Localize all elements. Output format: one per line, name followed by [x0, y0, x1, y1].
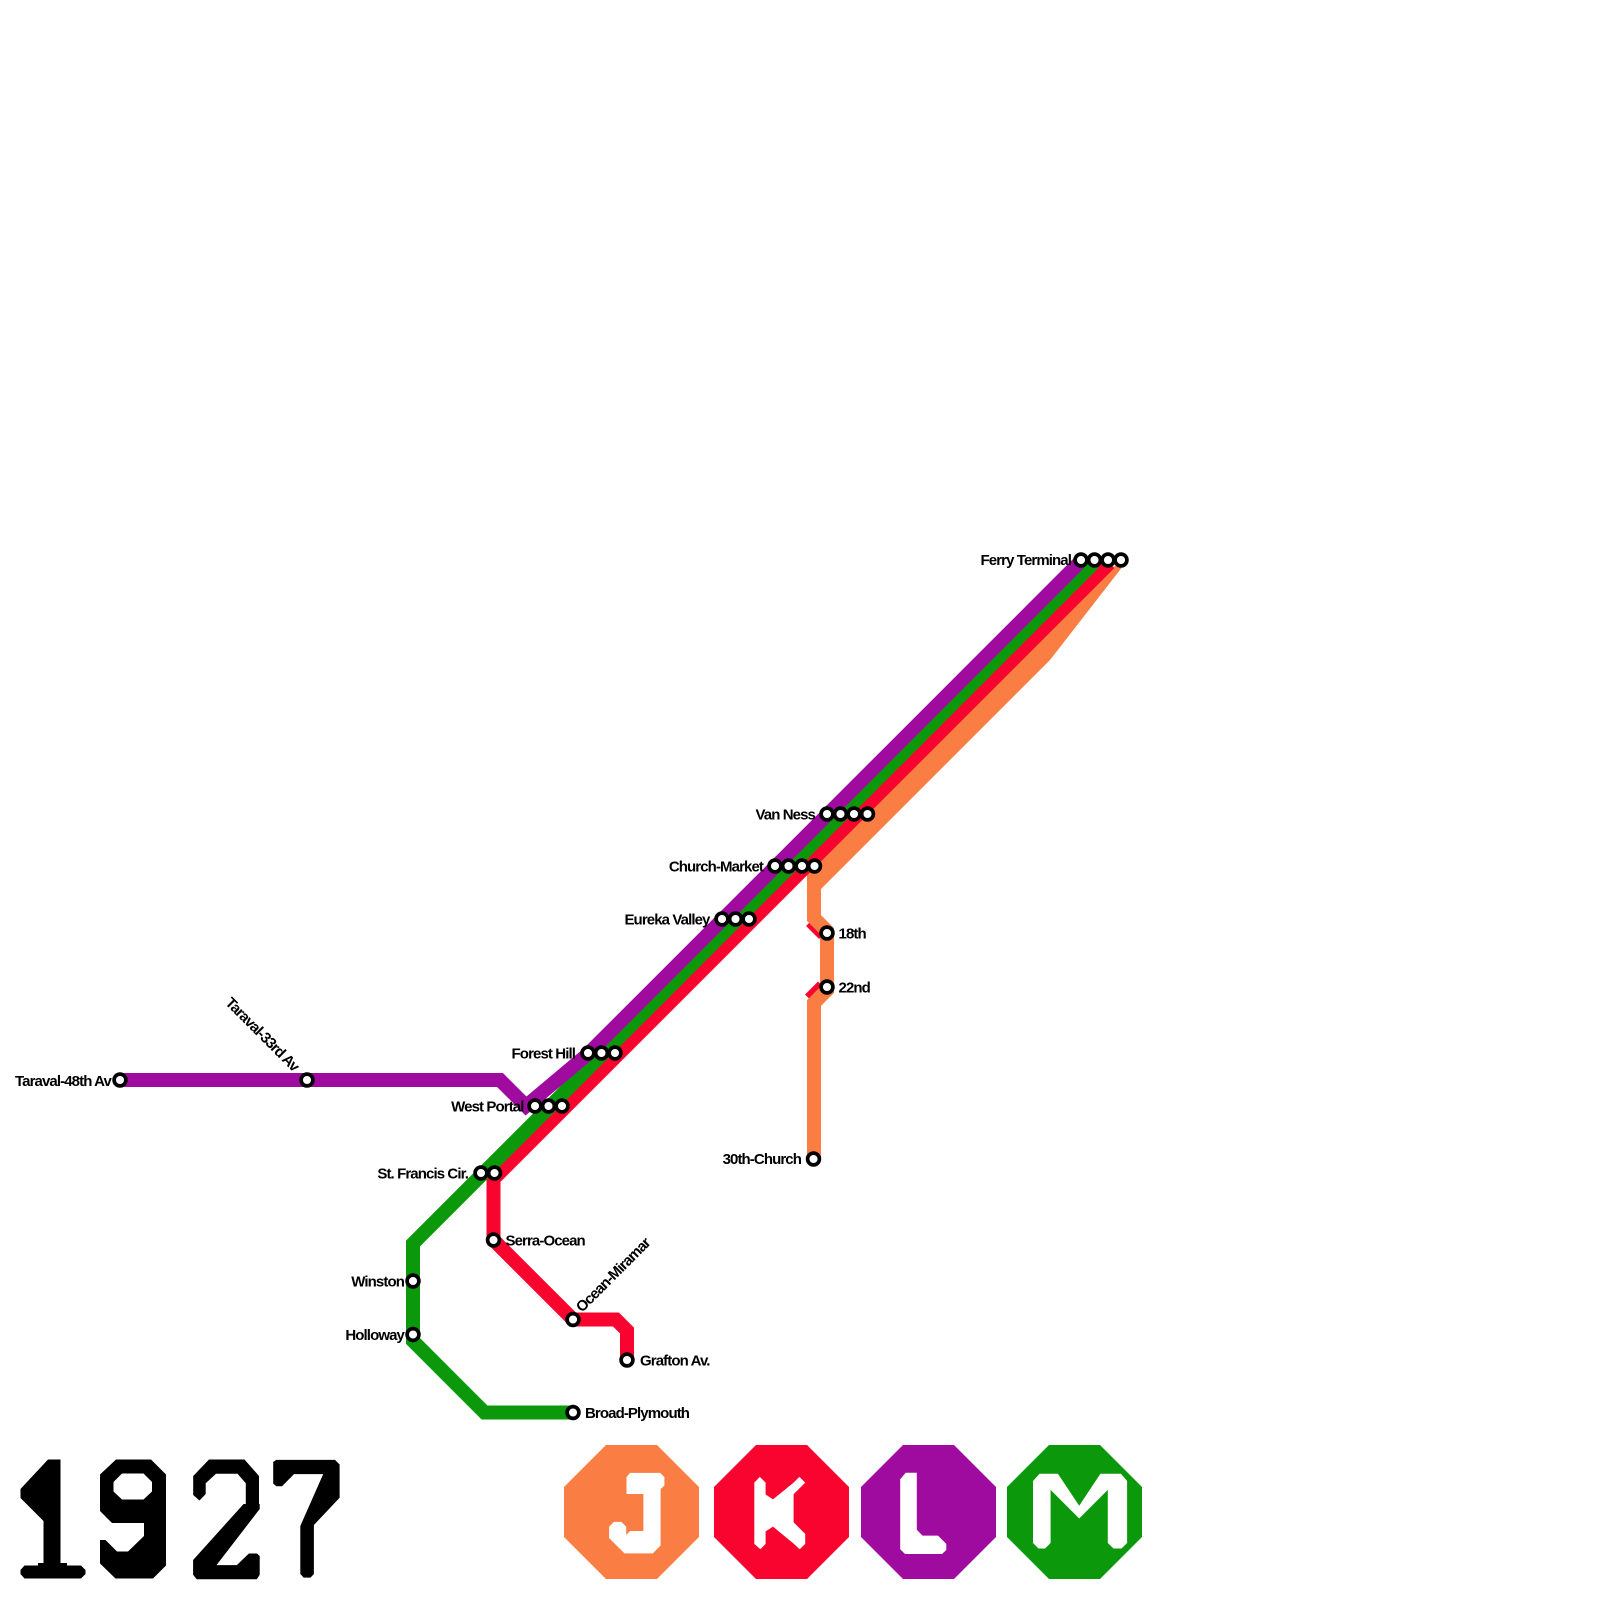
station Ferry Terminal — [1075, 554, 1087, 566]
year 1927 digit 1 — [21, 1460, 61, 1567]
svg-text:Church-Market: Church-Market — [669, 859, 764, 876]
line K (red) sliver under J branch jog at 18th — [811, 921, 824, 934]
station circles — [114, 554, 1127, 1418]
station Church-Market — [769, 860, 781, 872]
badge L letter — [900, 1473, 946, 1554]
badge J octagon (orange) — [564, 1445, 699, 1579]
year 1927 digit 2 — [193, 1460, 259, 1511]
station Eureka Valley — [716, 913, 728, 925]
badge M octagon (green) — [1007, 1445, 1142, 1579]
line J (orange) branch Church-Market to 30th-Church — [814, 864, 827, 1159]
badge J letter — [609, 1473, 664, 1554]
svg-text:Holloway: Holloway — [345, 1327, 405, 1344]
station Forest Hill — [582, 1047, 594, 1059]
badge K letter — [754, 1477, 805, 1549]
badge M letter — [1033, 1474, 1127, 1549]
station Winston — [407, 1275, 419, 1287]
station 18th — [821, 927, 833, 939]
station Ocean-Miramar — [567, 1314, 579, 1326]
station Grafton Av. — [621, 1354, 633, 1366]
svg-text:Serra-Ocean: Serra-Ocean — [506, 1233, 586, 1250]
svg-text:St. Francis Cir.: St. Francis Cir. — [377, 1166, 468, 1183]
year 1927 digit 7 — [273, 1460, 339, 1578]
station Holloway — [407, 1329, 419, 1341]
station Van Ness — [821, 808, 833, 820]
svg-text:22nd: 22nd — [839, 980, 871, 997]
station 22nd — [821, 981, 833, 993]
station Taraval-33rd Av — [301, 1074, 313, 1086]
line M (green) Ferry Terminal to Broad-Plymouth — [413, 563, 1094, 1413]
badge K octagon (red) — [714, 1445, 849, 1579]
line K (red) sliver under J branch jog at 22nd — [810, 987, 823, 1000]
line J (orange) wide diagonal Ferry Terminal to Church-Market junction — [807, 564, 1122, 889]
year 1927 digit 9 — [100, 1460, 166, 1579]
svg-text:Winston: Winston — [351, 1274, 404, 1291]
station Serra-Ocean — [488, 1234, 500, 1246]
svg-text:30th-Church: 30th-Church — [723, 1151, 802, 1168]
svg-text:Broad-Plymouth: Broad-Plymouth — [585, 1405, 690, 1422]
line L (purple) Ferry Terminal to Taraval-48th Av — [120, 563, 1079, 1106]
station West Portal — [529, 1100, 541, 1112]
station 30th-Church — [808, 1153, 820, 1165]
svg-text:Van Ness: Van Ness — [755, 807, 815, 824]
svg-text:Grafton Av.: Grafton Av. — [640, 1353, 710, 1370]
station Taraval-48th Av — [114, 1074, 126, 1086]
svg-text:Eureka Valley: Eureka Valley — [624, 912, 711, 929]
station Broad-Plymouth — [567, 1407, 579, 1419]
svg-text:West Portal: West Portal — [451, 1099, 524, 1116]
badge L octagon (purple) — [861, 1445, 996, 1579]
line K (red) Ferry Terminal to Grafton Av. — [494, 563, 1110, 1360]
station St. Francis Cir. — [475, 1167, 487, 1179]
svg-text:Forest Hill: Forest Hill — [512, 1046, 576, 1063]
svg-text:18th: 18th — [839, 926, 867, 943]
svg-text:Ferry Terminal: Ferry Terminal — [981, 552, 1072, 569]
station labels — [15, 552, 1072, 1422]
svg-text:Taraval-48th Av: Taraval-48th Av — [15, 1073, 113, 1090]
